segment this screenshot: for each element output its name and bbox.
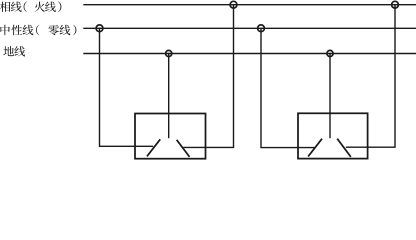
socket X1 right contact slash [177,141,189,157]
socket X1 outline [135,114,206,159]
socket X2 left contact slash [309,139,322,155]
node on L2 at neutral tap for X1 [96,25,103,32]
node on L3 at ground tap for X1 [166,50,172,56]
wire neutral drop to socket X2 [261,28,314,147]
wire phase drop to socket X1 [184,5,234,148]
wire L1 phase bus [84,4,416,6]
wire ground drop to socket X2 [329,54,331,138]
wire phase drop to socket X2 [347,5,396,148]
socket X1 left contact slash [148,140,160,156]
wire L3 ground bus [84,53,416,55]
node on L1 at phase tap for X1 [230,1,237,8]
wire ground drop to socket X1 [168,54,170,138]
node on L3 at ground tap for X2 [327,50,333,56]
socket X2 right contact slash [338,139,351,156]
socket X2 outline [298,113,368,158]
node on L1 at phase tap for X2 [392,1,399,8]
node on L2 at neutral tap for X2 [258,25,265,32]
wire neutral drop to socket X1 [100,28,153,146]
label 中性线（零线） neutral line [0,25,76,36]
label 地线 ground line [3,46,25,56]
wire L2 neutral bus [84,27,416,29]
label 相线（火线） phase/live line [0,2,61,13]
